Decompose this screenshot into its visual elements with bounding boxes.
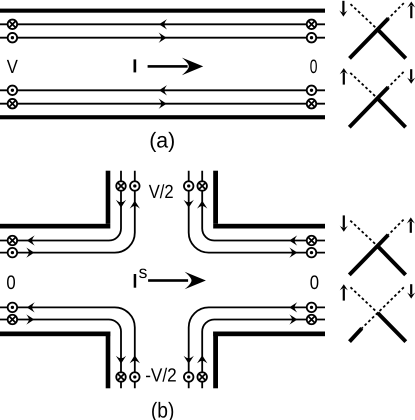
svg-text:0: 0 <box>310 272 319 294</box>
svg-text:V: V <box>7 57 18 78</box>
svg-text:0: 0 <box>310 56 318 78</box>
svg-text:-V/2: -V/2 <box>145 366 177 387</box>
svg-text:0: 0 <box>6 272 15 294</box>
svg-text:(b): (b) <box>151 398 175 420</box>
svg-text:V/2: V/2 <box>149 182 174 203</box>
svg-text:(a): (a) <box>149 128 175 152</box>
svg-text:s: s <box>139 262 148 282</box>
